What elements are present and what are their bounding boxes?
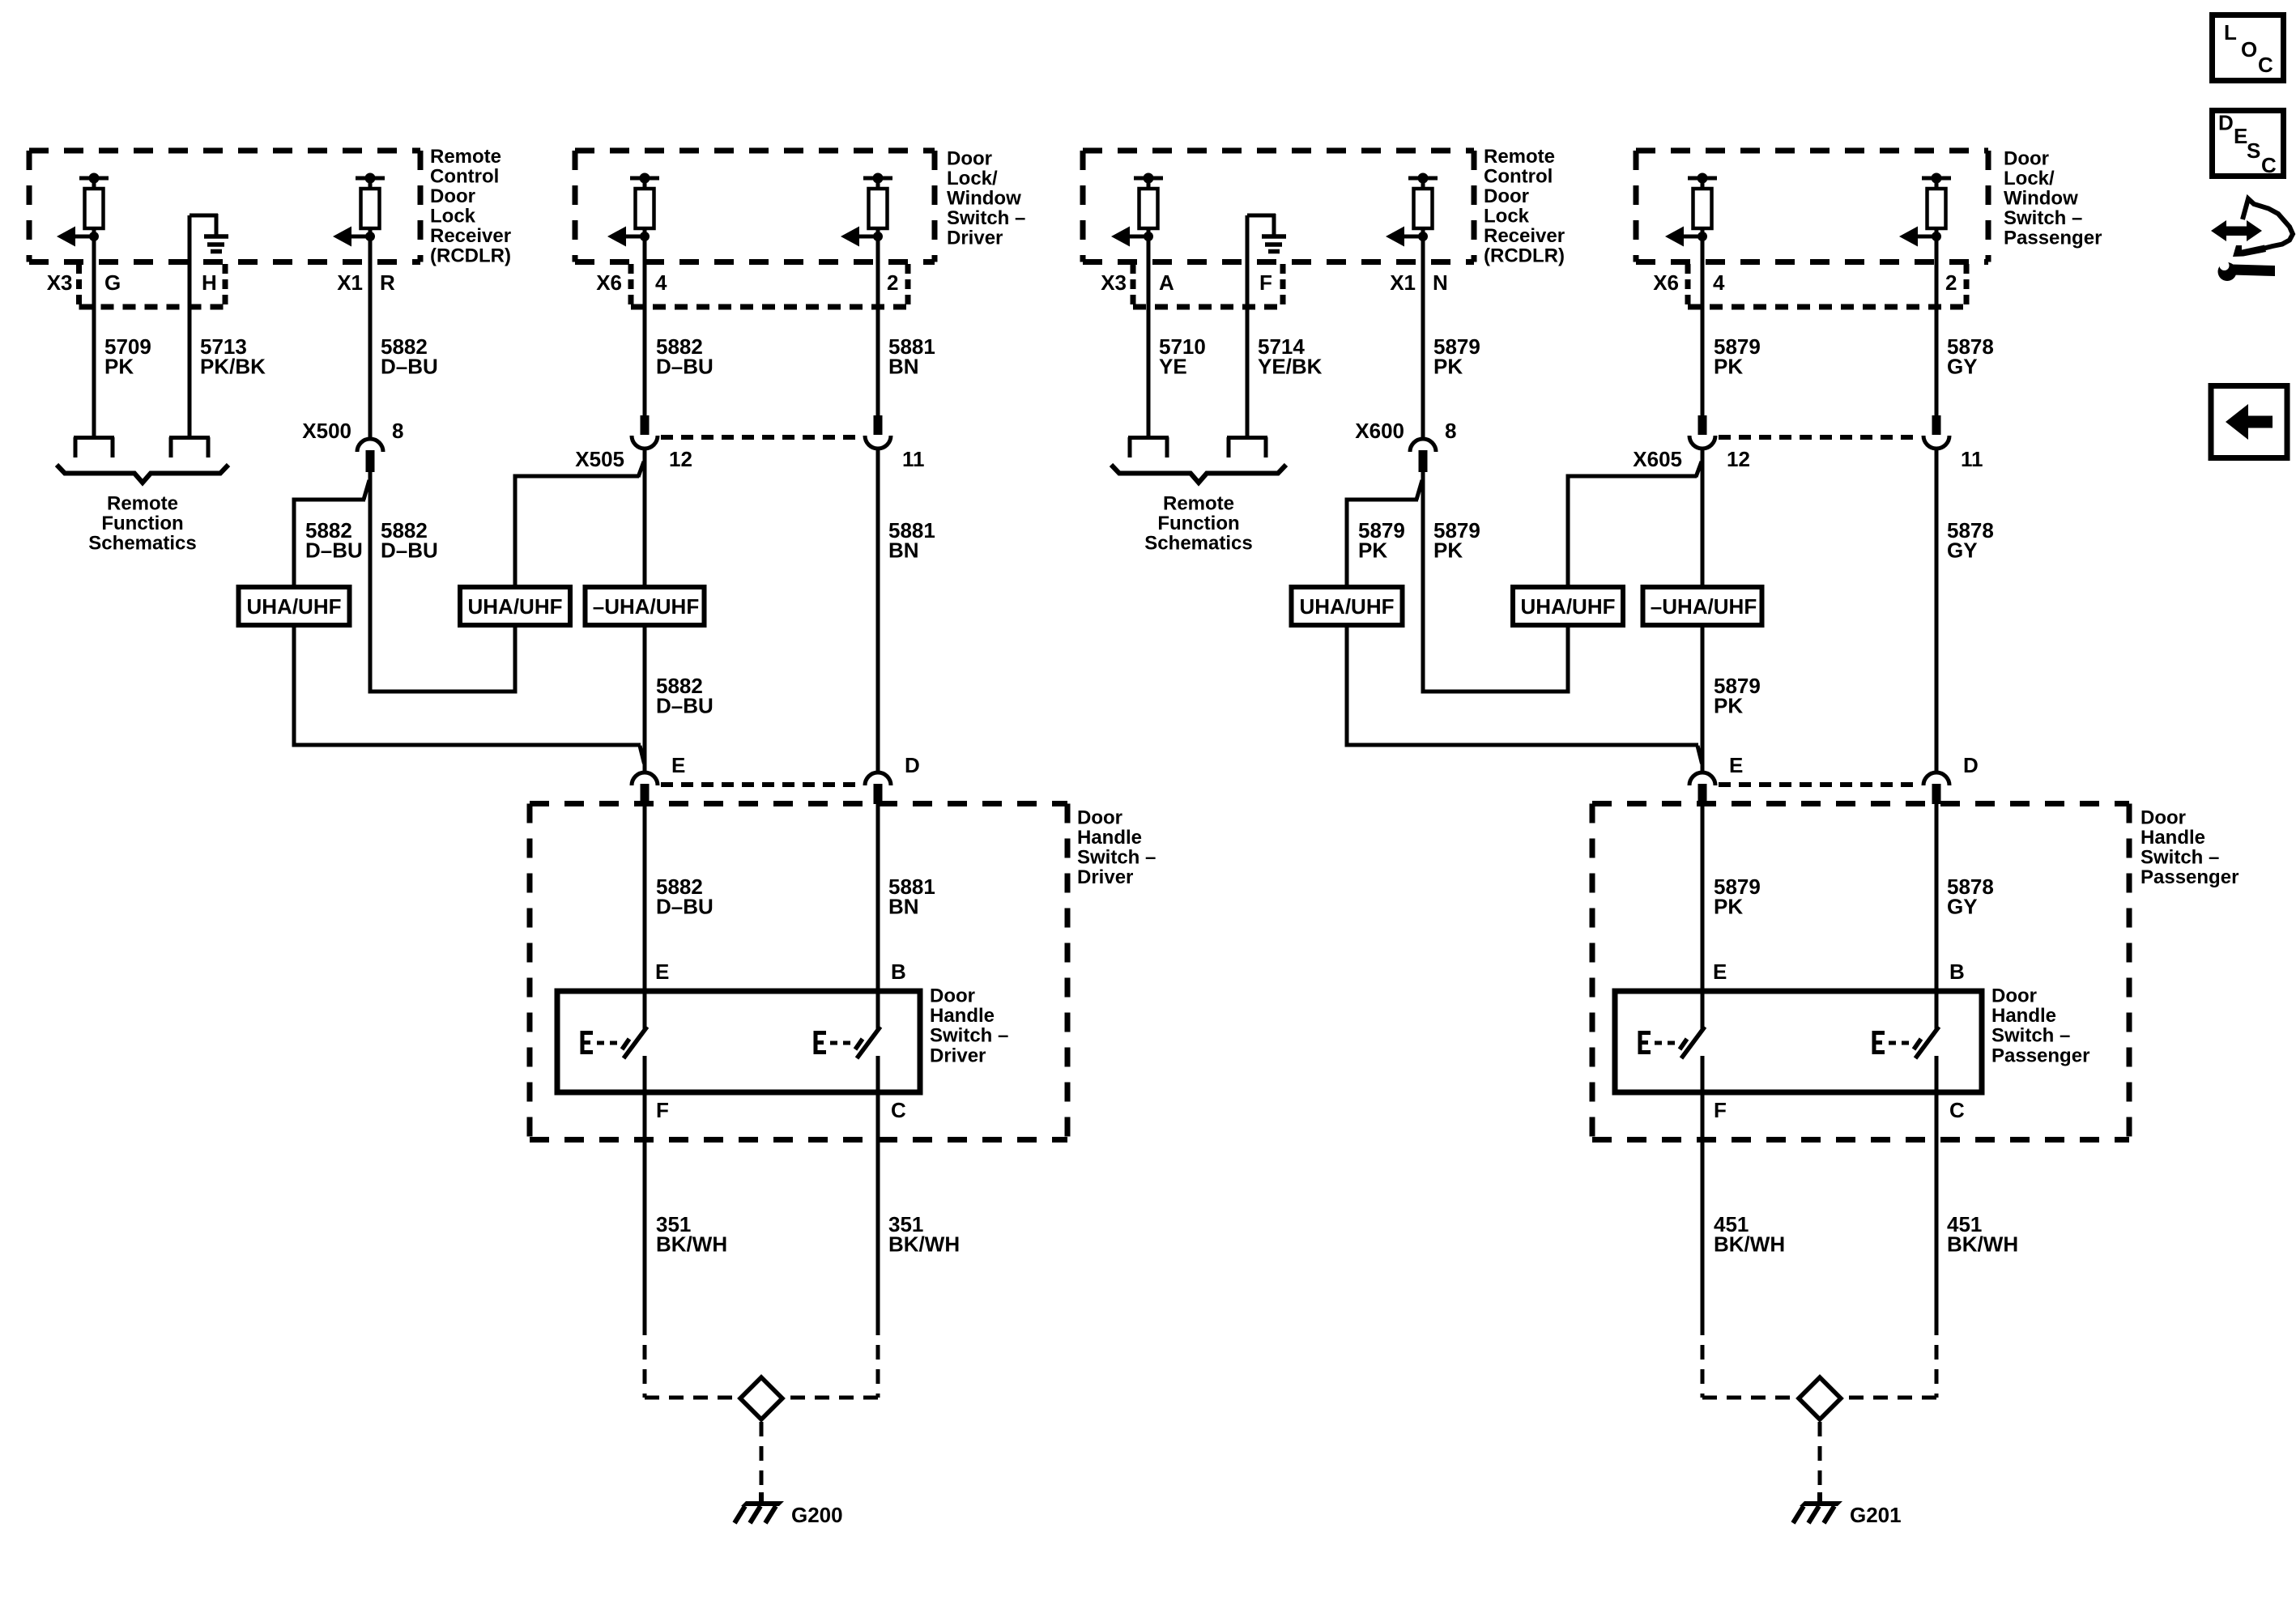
connector X3 pin box (passenger): [1133, 264, 1283, 307]
wire 5879 label main branch (passenger): [1433, 518, 1480, 563]
svg-text:Switch –: Switch –: [1077, 847, 1156, 869]
svg-text:GY: GY: [1947, 355, 1978, 379]
svg-text:C: C: [1949, 1098, 1965, 1122]
svg-text:D–BU: D–BU: [305, 538, 363, 563]
harness routing icon: [2211, 199, 2293, 282]
wire from second UHA/UHF to X605 (passenger): [1566, 462, 1702, 589]
wire 5881 X505 pin 11 down (driver): [876, 449, 880, 772]
svg-text:X505: X505: [575, 447, 624, 471]
svg-text:G201: G201: [1850, 1503, 1902, 1527]
ground label G200 (driver): [791, 1503, 843, 1527]
svg-text:BK/WH: BK/WH: [1714, 1232, 1785, 1257]
switch pin E label (driver): [655, 960, 669, 984]
connector X505 label (driver): [575, 447, 624, 471]
wire 5881 label DLWS (driver): [888, 334, 935, 379]
svg-text:B: B: [891, 960, 906, 984]
svg-text:D–BU: D–BU: [656, 895, 714, 919]
resistor element RCDLR pin A (passenger): [1111, 173, 1163, 247]
connector X605 label (passenger): [1633, 447, 1682, 471]
svg-text:11: 11: [1961, 447, 1983, 471]
svg-text:YE: YE: [1159, 355, 1187, 379]
svg-text:2: 2: [1945, 270, 1957, 295]
svg-text:Lock/: Lock/: [947, 168, 998, 189]
svg-text:BK/WH: BK/WH: [888, 1232, 960, 1257]
wire segment below X500 (driver): [368, 472, 373, 694]
svg-text:GY: GY: [1947, 895, 1978, 919]
dashed ground wire right (passenger): [1842, 1321, 1936, 1398]
connector X600 label (passenger): [1355, 419, 1404, 443]
ground symbol inside RCDLR (driver): [190, 214, 228, 252]
svg-text:Receiver: Receiver: [1484, 225, 1565, 247]
wire 5882 label DLWS (driver): [656, 334, 714, 379]
pin 12 label (driver): [669, 447, 692, 471]
svg-text:Control: Control: [1484, 166, 1553, 188]
svg-text:E: E: [1729, 753, 1743, 777]
pin 11 label (driver): [902, 447, 925, 471]
connector label X1 (driver): [337, 270, 363, 295]
svg-text:S: S: [2247, 138, 2260, 163]
svg-text:PK: PK: [1358, 538, 1387, 563]
switch contact 2 (driver): [814, 994, 880, 1096]
wire 5878 label mid (passenger): [1947, 518, 1994, 563]
svg-text:Passenger: Passenger: [2004, 228, 2102, 249]
connector X3 pin box (driver): [79, 264, 226, 307]
svg-text:Remote: Remote: [1484, 146, 1555, 168]
connector row dashed link X505 (driver): [661, 435, 862, 440]
svg-text:Lock/: Lock/: [2004, 168, 2055, 189]
resistor element RCDLR pin N (passenger): [1386, 173, 1438, 247]
ground label G201 (passenger): [1850, 1503, 1902, 1527]
svg-text:G: G: [104, 270, 121, 295]
svg-text:UHA/UHF: UHA/UHF: [1300, 594, 1395, 619]
wire from second UHA/UHF to X505 (driver): [513, 462, 645, 589]
svg-text:Handle: Handle: [1077, 827, 1142, 849]
wire 5882 label main branch (driver): [381, 518, 438, 563]
wire 5709 PK pin G (driver): [92, 236, 96, 437]
connector X500 label (driver): [302, 419, 351, 443]
Remote Function Schematics label (passenger): [1144, 493, 1252, 555]
svg-text:Switch –: Switch –: [947, 207, 1025, 229]
svg-text:H: H: [202, 270, 217, 295]
wire 5879 inside DHS (passenger): [1701, 803, 1705, 994]
svg-text:C: C: [2261, 153, 2277, 177]
wire 5882 label below -UHA/UHF (driver): [656, 674, 714, 718]
svg-text:UHA/UHF: UHA/UHF: [1521, 594, 1616, 619]
splice diamond (passenger): [1799, 1377, 1841, 1419]
connector pin E (passenger): [1689, 772, 1715, 804]
pin R label (driver): [380, 270, 395, 295]
main wire X505 to door handle switch (driver): [643, 449, 647, 772]
wire 5878 label DLWS (passenger): [1947, 334, 1994, 379]
wire 351 label right (driver): [888, 1212, 960, 1257]
pin 2 label (driver): [887, 270, 898, 295]
in-line connector X605 pin 11 (passenger): [1923, 415, 1949, 449]
svg-text:N: N: [1433, 270, 1448, 295]
svg-text:Lock: Lock: [1484, 206, 1530, 228]
svg-text:Remote: Remote: [107, 493, 178, 515]
wire 5878 X605 pin 11 down (passenger): [1935, 449, 1939, 772]
brace Remote Function Schematics (driver): [57, 465, 228, 483]
svg-text:PK: PK: [1714, 694, 1743, 718]
svg-text:Handle: Handle: [2141, 827, 2205, 849]
svg-text:Door: Door: [1484, 185, 1529, 207]
wire 5879 DLWS pin 4 to X605 (passenger): [1701, 236, 1705, 417]
Door Handle Switch module label (driver): [1077, 807, 1156, 889]
svg-text:UHA/UHF: UHA/UHF: [247, 594, 342, 619]
svg-text:–UHA/UHF: –UHA/UHF: [1651, 594, 1757, 619]
wire 5881 DLWS pin 2 (driver): [876, 236, 880, 417]
Door Handle Switch module box (passenger): [1592, 804, 2129, 1140]
wire 5882 D&#8211;BU from X1 R (driver): [368, 236, 373, 439]
connector pin D (passenger): [1923, 772, 1949, 804]
svg-text:Switch –: Switch –: [2004, 207, 2082, 229]
svg-text:D: D: [2218, 111, 2234, 135]
ground symbol inside RCDLR (passenger): [1247, 214, 1286, 252]
svg-text:E: E: [671, 753, 685, 777]
svg-text:BK/WH: BK/WH: [1947, 1232, 2018, 1257]
wire 5879 label below -UHA/UHF (passenger): [1714, 674, 1761, 718]
resistor element DLWS pin 2 (passenger): [1899, 173, 1951, 247]
terminal to Remote Function Schematics pin G (driver): [74, 437, 114, 457]
terminal to Remote Function Schematics pin A (passenger): [1128, 437, 1169, 457]
svg-text:X1: X1: [1390, 270, 1416, 295]
svg-text:Lock: Lock: [430, 206, 476, 228]
svg-text:X1: X1: [337, 270, 363, 295]
wire 5710 label (passenger): [1159, 334, 1206, 379]
in-line connector X505 pin 11 (driver): [865, 415, 891, 449]
svg-text:Window: Window: [2004, 188, 2078, 210]
switch pin F label (driver): [656, 1098, 669, 1122]
splice diamond (driver): [740, 1377, 782, 1419]
resistor element RCDLR pin R (driver): [333, 173, 385, 247]
pin G label (driver): [104, 270, 121, 295]
svg-text:PK: PK: [1433, 538, 1463, 563]
svg-text:B: B: [1949, 960, 1965, 984]
svg-text:D: D: [1963, 753, 1979, 777]
RCDLR label (driver): [430, 146, 511, 267]
svg-text:F: F: [1259, 270, 1272, 295]
RCDLR module box (passenger): [1083, 151, 1474, 262]
svg-text:PK: PK: [1433, 355, 1463, 379]
option box -UHA/UHF (passenger): [1643, 587, 1762, 625]
svg-text:12: 12: [669, 447, 692, 471]
wire 451 label left (passenger): [1714, 1212, 1785, 1257]
wire 5879 label DLWS (passenger): [1714, 334, 1761, 379]
switch pin B label (passenger): [1949, 960, 1965, 984]
svg-text:Driver: Driver: [930, 1045, 986, 1066]
wire 451 BK/WH from F (passenger): [1701, 1092, 1705, 1321]
wire 5882 DLWS pin 4 to X505 (driver): [643, 236, 647, 417]
Remote Function Schematics label (driver): [88, 493, 196, 555]
switch pin F label (passenger): [1714, 1098, 1727, 1122]
svg-text:UHA/UHF: UHA/UHF: [468, 594, 563, 619]
svg-text:Passenger: Passenger: [1991, 1045, 2089, 1066]
main wire X605 to door handle switch (passenger): [1701, 449, 1705, 772]
svg-text:X3: X3: [1101, 270, 1127, 295]
resistor element DLWS pin 4 (driver): [607, 173, 659, 247]
svg-text:12: 12: [1727, 447, 1750, 471]
svg-text:–UHA/UHF: –UHA/UHF: [593, 594, 699, 619]
svg-text:Door: Door: [947, 148, 992, 170]
option box UHA/UHF second (driver): [460, 587, 570, 625]
pin 8 label (passenger): [1445, 419, 1456, 443]
wire jog to second UHA/UHF (driver): [368, 625, 518, 691]
svg-text:(RCDLR): (RCDLR): [1484, 245, 1565, 267]
dashed wire splice to ground (driver): [760, 1422, 764, 1492]
in-line connector X500 (driver): [357, 439, 383, 472]
wire 451 label right (passenger): [1947, 1212, 2018, 1257]
switch pin E label (passenger): [1713, 960, 1727, 984]
wire 5881 label inside DHS (driver): [888, 874, 935, 919]
dashed ground wire left (driver): [645, 1321, 739, 1398]
svg-text:Handle: Handle: [930, 1005, 995, 1027]
DESC icon box: [2213, 111, 2284, 178]
wire 5879 label left branch (passenger): [1358, 518, 1405, 563]
back arrow icon box: [2211, 386, 2287, 458]
svg-text:BN: BN: [888, 538, 919, 563]
pin 12 label (passenger): [1727, 447, 1750, 471]
terminal to Remote Function Schematics pin H (driver): [169, 437, 210, 457]
switch pin C label (passenger): [1949, 1098, 1965, 1122]
pin N label (passenger): [1433, 270, 1448, 295]
RCDLR module box (driver): [29, 151, 420, 262]
svg-text:G200: G200: [791, 1503, 843, 1527]
wire from first UHA/UHF to splice at E (passenger): [1345, 623, 1702, 764]
ground symbol G201 (passenger): [1793, 1492, 1842, 1523]
wire 5882 inside DHS (driver): [643, 803, 647, 994]
svg-text:Function: Function: [101, 513, 183, 534]
svg-text:PK: PK: [104, 355, 134, 379]
wire jog to second UHA/UHF (passenger): [1421, 625, 1570, 691]
Door Handle Switch inner label (driver): [930, 985, 1008, 1067]
wire 5713 label (driver): [200, 334, 266, 379]
wire 5879 PK from X1 N (passenger): [1421, 236, 1425, 439]
svg-text:X605: X605: [1633, 447, 1682, 471]
switch pin B label (driver): [891, 960, 906, 984]
switch contact 2 (passenger): [1872, 994, 1939, 1096]
Door Lock/Window Switch box (passenger): [1636, 151, 1988, 262]
svg-text:Handle: Handle: [1991, 1005, 2056, 1027]
svg-text:L: L: [2224, 20, 2237, 45]
branch wire to first UHA/UHF (passenger): [1345, 480, 1423, 589]
connector row dashed link X605 (passenger): [1719, 435, 1920, 440]
resistor element DLWS pin 4 (passenger): [1665, 173, 1717, 247]
option box UHA/UHF second (passenger): [1513, 587, 1623, 625]
svg-text:Schematics: Schematics: [1144, 533, 1252, 555]
svg-text:4: 4: [655, 270, 667, 295]
svg-text:C: C: [891, 1098, 906, 1122]
svg-text:F: F: [656, 1098, 669, 1122]
svg-text:Window: Window: [947, 188, 1021, 210]
wire 5881 label mid (driver): [888, 518, 935, 563]
wire from first UHA/UHF to splice at E (driver): [292, 623, 645, 764]
svg-text:PK: PK: [1714, 355, 1743, 379]
pin 4 label (driver): [655, 270, 667, 295]
pin H label (driver): [202, 270, 217, 295]
connector row dashed link E-D (driver): [661, 782, 862, 787]
terminal to Remote Function Schematics pin F (passenger): [1227, 437, 1267, 457]
switch contact 1 (driver): [581, 994, 647, 1096]
pin 4 label (passenger): [1713, 270, 1725, 295]
Door Lock/Window Switch label (passenger): [2004, 148, 2102, 249]
connector row dashed link E-D (passenger): [1719, 782, 1920, 787]
wire 5881 inside DHS (driver): [876, 803, 880, 994]
option box UHA/UHF first (driver): [239, 587, 350, 625]
wire 5882 label inside DHS (driver): [656, 874, 714, 919]
svg-text:E: E: [655, 960, 669, 984]
wire 5879 label inside DHS (passenger): [1714, 874, 1761, 919]
connector label X1 (passenger): [1390, 270, 1416, 295]
svg-text:Receiver: Receiver: [430, 225, 511, 247]
svg-text:D–BU: D–BU: [656, 355, 714, 379]
svg-text:X6: X6: [1653, 270, 1679, 295]
wire 5879 label at X1 (passenger): [1433, 334, 1480, 379]
wire 5709 label (driver): [104, 334, 151, 379]
wire 5882 label at X1 (driver): [381, 334, 438, 379]
resistor element RCDLR pin G (driver): [57, 173, 109, 247]
svg-text:Switch –: Switch –: [1991, 1025, 2070, 1047]
pin 8 label (driver): [392, 419, 403, 443]
connector pin E (driver): [632, 772, 658, 804]
in-line connector X600 (passenger): [1410, 439, 1436, 472]
branch wire to first UHA/UHF (driver): [292, 480, 370, 589]
svg-text:D: D: [905, 753, 920, 777]
wire 5878 DLWS pin 2 (passenger): [1935, 236, 1939, 417]
wire 5882 label left branch (driver): [305, 518, 363, 563]
svg-text:BN: BN: [888, 895, 919, 919]
svg-text:X600: X600: [1355, 419, 1404, 443]
svg-text:O: O: [2241, 37, 2257, 62]
dashed ground wire right (driver): [784, 1321, 878, 1398]
wire 451 BK/WH from C (passenger): [1935, 1092, 1939, 1321]
svg-text:YE/BK: YE/BK: [1258, 355, 1323, 379]
svg-text:E: E: [2234, 124, 2247, 148]
svg-text:Passenger: Passenger: [2141, 866, 2238, 888]
svg-text:D–BU: D–BU: [656, 694, 714, 718]
svg-text:E: E: [1713, 960, 1727, 984]
option box -UHA/UHF (driver): [586, 587, 705, 625]
pin F label (passenger): [1259, 270, 1272, 295]
svg-text:A: A: [1159, 270, 1174, 295]
svg-text:Door: Door: [2141, 807, 2186, 829]
svg-text:8: 8: [392, 419, 403, 443]
svg-text:PK/BK: PK/BK: [200, 355, 266, 379]
svg-text:D–BU: D–BU: [381, 355, 438, 379]
svg-text:X3: X3: [47, 270, 73, 295]
connector pin D (driver): [865, 772, 891, 804]
connector label X3 (passenger): [1101, 270, 1127, 295]
Door Handle Switch module box (driver): [530, 804, 1067, 1140]
wire 351 label left (driver): [656, 1212, 727, 1257]
svg-text:2: 2: [887, 270, 898, 295]
option box UHA/UHF first (passenger): [1292, 587, 1403, 625]
connector label X6 (driver): [596, 270, 622, 295]
svg-text:Door: Door: [1077, 807, 1122, 829]
svg-text:F: F: [1714, 1098, 1727, 1122]
svg-text:X6: X6: [596, 270, 622, 295]
svg-text:(RCDLR): (RCDLR): [430, 245, 511, 267]
svg-text:Schematics: Schematics: [88, 533, 196, 555]
wire 351 BK/WH from F (driver): [643, 1092, 647, 1321]
pin A label (passenger): [1159, 270, 1174, 295]
resistor element DLWS pin 2 (driver): [841, 173, 892, 247]
dashed wire splice to ground (passenger): [1818, 1422, 1822, 1492]
pin 2 label (passenger): [1945, 270, 1957, 295]
ground symbol G200 (driver): [735, 1492, 784, 1523]
brace Remote Function Schematics (passenger): [1111, 465, 1286, 483]
connector X6 pin box (driver): [631, 264, 908, 307]
svg-text:Door: Door: [930, 985, 975, 1007]
pin D label (passenger): [1963, 753, 1979, 777]
Door Handle Switch inner label (passenger): [1991, 985, 2089, 1067]
dashed ground wire left (passenger): [1702, 1321, 1797, 1398]
svg-text:PK: PK: [1714, 895, 1743, 919]
connector X6 pin box (passenger): [1688, 264, 1966, 307]
svg-text:Door: Door: [1991, 985, 2037, 1007]
svg-text:Driver: Driver: [947, 228, 1003, 249]
wire 5714 YE/BK pin F (passenger): [1246, 215, 1250, 437]
svg-text:GY: GY: [1947, 538, 1978, 563]
svg-text:Function: Function: [1157, 513, 1239, 534]
svg-text:Door: Door: [2004, 148, 2049, 170]
Door Lock/Window Switch label (driver): [947, 148, 1025, 249]
wire 5714 label (passenger): [1258, 334, 1323, 379]
LOC icon box: [2213, 15, 2284, 81]
pin E label (passenger): [1729, 753, 1743, 777]
wire 5878 inside DHS (passenger): [1935, 803, 1939, 994]
wire 5878 label inside DHS (passenger): [1947, 874, 1994, 919]
switch pin C label (driver): [891, 1098, 906, 1122]
svg-text:C: C: [2258, 53, 2273, 77]
svg-text:Door: Door: [430, 185, 475, 207]
RCDLR label (passenger): [1484, 146, 1565, 267]
Door Handle Switch inner box (driver): [557, 991, 920, 1092]
svg-text:4: 4: [1713, 270, 1725, 295]
svg-text:BN: BN: [888, 355, 919, 379]
svg-text:D–BU: D–BU: [381, 538, 438, 563]
pin 11 label (passenger): [1961, 447, 1983, 471]
svg-text:Switch –: Switch –: [2141, 847, 2219, 869]
connector label X6 (passenger): [1653, 270, 1679, 295]
wire 5713 PK/BK pin H (driver): [188, 215, 192, 437]
svg-text:BK/WH: BK/WH: [656, 1232, 727, 1257]
in-line connector X505 pin 12 (driver): [632, 415, 658, 449]
svg-text:11: 11: [902, 447, 925, 471]
svg-text:Switch –: Switch –: [930, 1025, 1008, 1047]
Door Lock/Window Switch box (driver): [575, 151, 935, 262]
Door Handle Switch module label (passenger): [2141, 807, 2238, 889]
switch contact 1 (passenger): [1638, 994, 1705, 1096]
Door Handle Switch inner box (passenger): [1615, 991, 1982, 1092]
svg-text:Control: Control: [430, 166, 499, 188]
pin E label (driver): [671, 753, 685, 777]
svg-text:R: R: [380, 270, 395, 295]
wire segment below X600 (passenger): [1421, 472, 1425, 694]
connector label X3 (driver): [47, 270, 73, 295]
svg-text:X500: X500: [302, 419, 351, 443]
svg-text:Remote: Remote: [430, 146, 501, 168]
svg-text:Remote: Remote: [1163, 493, 1234, 515]
svg-text:8: 8: [1445, 419, 1456, 443]
wire 351 BK/WH from C (driver): [876, 1092, 880, 1321]
in-line connector X605 pin 12 (passenger): [1689, 415, 1715, 449]
pin D label (driver): [905, 753, 920, 777]
svg-text:Driver: Driver: [1077, 866, 1133, 888]
wire 5710 YE pin A (passenger): [1147, 236, 1151, 437]
